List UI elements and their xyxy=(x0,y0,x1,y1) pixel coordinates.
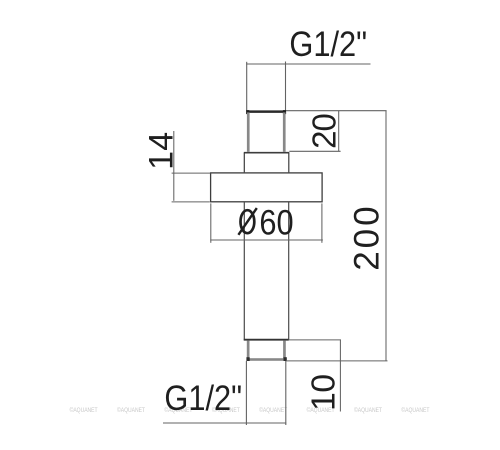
extension line 10 top (thread start) xyxy=(289,339,341,341)
bottom thread: bottom edge xyxy=(247,358,286,361)
dimension line 10 xyxy=(339,340,341,412)
top thread: left side (thread lines) xyxy=(247,112,250,151)
extension line 14 top (flange top) xyxy=(172,172,211,174)
svg-text:©AQUANET: ©AQUANET xyxy=(401,406,429,414)
bottom-right extension line (thread diameter) xyxy=(285,361,287,425)
top-right extension line (thread diameter) xyxy=(285,62,287,111)
top leader line under G1/2" label xyxy=(246,63,370,65)
svg-text:200: 200 xyxy=(348,203,387,270)
svg-text:G1/2": G1/2" xyxy=(164,378,242,417)
top thread: left corner chamfer xyxy=(246,110,249,114)
extension line at collar top for 20 xyxy=(289,150,340,152)
pipe right edge below flange xyxy=(288,202,290,340)
dimension line 200 xyxy=(385,111,387,361)
bottom-left extension line (thread diameter) xyxy=(245,361,247,425)
extension line left for diameter 60 xyxy=(210,203,212,242)
watermark row xyxy=(70,406,430,414)
shared bottom extension line (thread end) for 10 and 200 xyxy=(286,360,388,362)
extension line from thread top to 200/20 dimension xyxy=(286,110,387,112)
dimension line 20 xyxy=(338,111,340,152)
svg-text:©AQUANET: ©AQUANET xyxy=(70,406,98,414)
pipe left edge below flange xyxy=(243,202,245,340)
extension line 14 bottom (flange bottom) xyxy=(172,201,210,203)
collar below top thread xyxy=(244,152,289,172)
svg-text:20: 20 xyxy=(305,114,342,149)
svg-text:©AQUANET: ©AQUANET xyxy=(354,406,382,414)
dimension line for diameter 60 xyxy=(210,239,323,241)
dimension line 14 xyxy=(173,131,175,201)
bottom leader line under G1/2" label xyxy=(163,422,286,424)
svg-text:G1/2": G1/2" xyxy=(289,24,367,63)
svg-text:©AQUANET: ©AQUANET xyxy=(117,406,145,414)
bottom thread: right bottom chamfer xyxy=(284,357,287,361)
flange (escutcheon) xyxy=(211,173,323,202)
top-left extension line (thread diameter) xyxy=(246,62,248,111)
pipe bottom shoulder xyxy=(244,339,289,341)
bottom thread: left bottom chamfer xyxy=(246,357,249,361)
extension line right for diameter 60 xyxy=(321,203,323,242)
label diameter 60 xyxy=(238,208,256,235)
svg-text:10: 10 xyxy=(306,374,343,411)
top thread: right corner chamfer xyxy=(283,110,286,114)
top thread: right side (thread lines) xyxy=(283,112,286,151)
svg-text:14: 14 xyxy=(142,132,180,170)
svg-text:©AQUANET: ©AQUANET xyxy=(259,406,287,414)
svg-text:60: 60 xyxy=(259,202,293,241)
bottom thread: left side (thread lines) xyxy=(247,341,250,359)
bottom thread: right side (thread lines) xyxy=(283,341,286,359)
top thread G1/2 : top edge xyxy=(247,110,286,113)
